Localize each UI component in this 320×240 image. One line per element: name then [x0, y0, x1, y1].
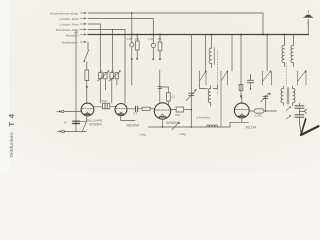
- antenna riser wire: [307, 26, 309, 35]
- terminal TA1: [57, 111, 60, 113]
- tube Rö4 bottom leads: [230, 118, 249, 127]
- svg-text:0,1: 0,1: [134, 112, 138, 115]
- svg-text:0,1MΩ: 0,1MΩ: [255, 115, 263, 118]
- terminal arrow Heizung: [80, 34, 84, 36]
- svg-text:Lichtant.-Pers: Lichtant.-Pers: [59, 22, 79, 26]
- tube Rö2 RES094: [115, 104, 127, 116]
- wire switch to R1: [86, 62, 88, 70]
- svg-text:T 4: T 4: [7, 113, 16, 126]
- svg-text:Lichtant.-Erde: Lichtant.-Erde: [59, 17, 79, 21]
- band switch contact K3: [263, 71, 271, 86]
- assembly2 risers: [267, 35, 294, 72]
- speaker horn LS: [301, 126, 319, 135]
- wire rail row5 Heizung bus: [88, 34, 309, 36]
- tube Rö4 RE134: [234, 103, 249, 118]
- wire R1 to tube1 with arrow: [86, 81, 88, 104]
- wires below C4: [100, 79, 105, 103]
- terminal arrow Lichtnetz: [80, 23, 84, 25]
- antenna dome symbol: [304, 15, 312, 18]
- capacitor C8 right of tube3: [170, 109, 176, 111]
- output transformer T1 core: [287, 88, 289, 105]
- wire row3 Lichtnetz: [88, 24, 100, 73]
- junction dots on rail: [131, 33, 286, 35]
- wire TA1 to tube1: [64, 111, 81, 113]
- svg-text:150: 150: [135, 38, 140, 41]
- svg-text:Hochantennen-Erdg.: Hochantennen-Erdg.: [50, 11, 79, 15]
- mech link dashed assembly2: [285, 63, 287, 86]
- resistor R7 right of tube4: [249, 110, 254, 112]
- output transformer T1 primary coil: [281, 89, 283, 103]
- capacitor C10 mid: [247, 75, 253, 83]
- band switch contact K4: [298, 71, 306, 86]
- wire tube4 riser: [240, 35, 243, 104]
- svg-text:RES094: RES094: [127, 123, 140, 127]
- svg-text:Telefunken.: Telefunken.: [9, 131, 15, 158]
- tube Rö3 REN904: [154, 103, 170, 119]
- svg-text:m.Fernhörer: m.Fernhörer: [196, 117, 210, 120]
- variable capacitor C11: [265, 96, 267, 111]
- terminal arrow Erdleitung: [80, 29, 84, 31]
- terminal arrow Erde: [80, 41, 84, 43]
- coil L2 below assembly1: [208, 89, 210, 103]
- wire branch row4 to C1: [75, 30, 77, 132]
- wire row2 Antenne: [88, 19, 153, 44]
- wire tube3 bottom: [162, 119, 164, 127]
- coil L1: [211, 35, 213, 49]
- resistor R3 cluster B: [159, 35, 161, 43]
- wire tube3 top: [159, 70, 161, 103]
- arrow on tube4 riser: [240, 96, 242, 99]
- tube Rö2 bottom lead: [121, 115, 135, 120]
- bottom wire main: [149, 126, 231, 128]
- bandfilter coil L4: [291, 45, 294, 63]
- switch S1: [84, 50, 89, 61]
- svg-text:Anodenbatt.: Anodenbatt.: [61, 40, 79, 44]
- capacitor C1: [73, 121, 80, 123]
- trimmer pair C4: [99, 73, 103, 79]
- svg-text:s.Reg.: s.Reg.: [179, 133, 187, 136]
- svg-text:Heizakku: Heizakku: [66, 33, 79, 37]
- svg-text:REN904: REN904: [166, 121, 179, 125]
- svg-text:4907: 4907: [175, 114, 181, 117]
- svg-text:5000: 5000: [102, 100, 108, 103]
- capacitor C7 between tube2 and tube3: [127, 108, 136, 110]
- potentiometer arrow P1 on bottom wire: [172, 123, 179, 130]
- bandfilter coil L3: [282, 45, 285, 63]
- svg-text:3-30: 3-30: [148, 38, 154, 41]
- wires below C5: [112, 79, 117, 103]
- resistor R6 above tube4: [239, 85, 243, 91]
- tube Rö1 REN904: [81, 103, 94, 116]
- trimmer capacitor C2 cluster A: [131, 13, 133, 43]
- trimmer capacitor C3 cluster B: [151, 43, 155, 47]
- band switch contact K1: [200, 71, 207, 85]
- speaker coupling capacitor C13: [295, 115, 304, 117]
- resistor R2 cluster A: [136, 35, 138, 42]
- svg-text:RE134: RE134: [246, 125, 257, 129]
- terminal TA2: [57, 131, 60, 133]
- speaker coupling capacitor C12: [295, 106, 304, 108]
- grid capacitor ticks above tube3: [158, 87, 162, 89]
- wire row1 Hochantenne: [88, 13, 263, 35]
- trimmer pair C5: [110, 73, 114, 79]
- variable capacitor arrow C9: [189, 93, 194, 95]
- svg-text:150: 150: [158, 38, 163, 41]
- wire vertical x191: [190, 35, 192, 128]
- band switch contact K2: [221, 71, 228, 127]
- svg-text:3-30: 3-30: [127, 38, 133, 41]
- resistor R5 above tube3: [160, 86, 169, 88]
- terminal arrow Hochantenne: [80, 12, 84, 14]
- terminal arrow Antenne: [80, 18, 84, 20]
- wire row4 Erdleitung: [88, 30, 125, 104]
- junction dot row1: [131, 12, 133, 14]
- assembly1 left riser: [204, 35, 206, 72]
- svg-text:0,3: 0,3: [172, 96, 176, 99]
- resistor R4 horizontal: [142, 107, 150, 110]
- output transformer T1 secondary coil: [293, 89, 295, 103]
- resistor R1: [85, 70, 89, 81]
- coupling element C6 between tube1 and tube2: [94, 106, 103, 108]
- svg-text:REN904: REN904: [89, 122, 102, 126]
- wire TA2: [64, 131, 86, 133]
- antenna fuse squiggle: [307, 19, 310, 26]
- adjust arrows at C12 C13: [286, 107, 290, 110]
- wire tube1 cathode to C1: [80, 116, 87, 132]
- inductor L5 on bottom wire: [207, 125, 218, 127]
- junction dot bottom tube3: [162, 126, 164, 128]
- svg-text:s.Reg.: s.Reg.: [139, 134, 147, 137]
- wire row6 Erde to switch: [87, 42, 89, 50]
- mech link dashed assembly1: [217, 50, 219, 95]
- assembly1 right riser: [231, 35, 233, 72]
